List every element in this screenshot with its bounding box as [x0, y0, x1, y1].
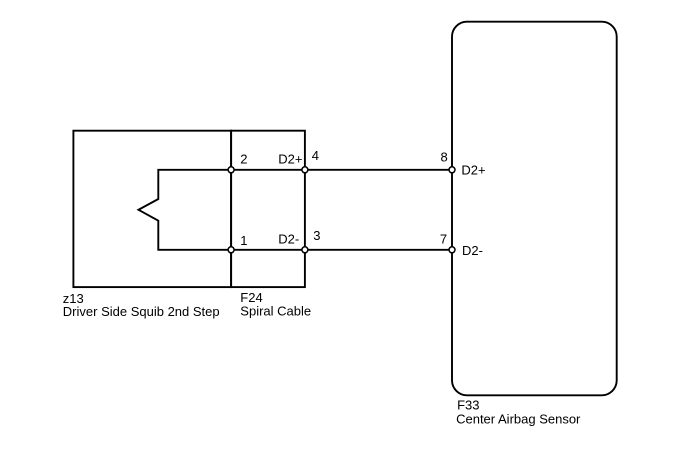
svg-text:1: 1: [240, 233, 247, 248]
connector F24 box: [231, 131, 305, 287]
svg-text:2: 2: [240, 152, 247, 167]
squib element z13: [139, 170, 232, 250]
wire D2+ F24 to F33: [305, 169, 452, 171]
svg-text:Driver Side Squib 2nd Step: Driver Side Squib 2nd Step: [63, 304, 220, 319]
svg-text:D2-: D2-: [278, 231, 299, 246]
wire D2- F24 internal: [231, 249, 305, 251]
svg-text:7: 7: [440, 232, 447, 247]
svg-text:Spiral Cable: Spiral Cable: [240, 303, 311, 318]
pin 4 junction: [302, 167, 308, 173]
pin 3 junction: [302, 247, 308, 253]
svg-text:D2+: D2+: [461, 162, 485, 177]
svg-text:8: 8: [441, 150, 448, 165]
pin 2 junction: [228, 167, 234, 173]
svg-text:3: 3: [313, 228, 320, 243]
connector z13 box: [73, 131, 231, 287]
svg-text:D2-: D2-: [462, 243, 483, 258]
svg-text:D2+: D2+: [278, 151, 302, 166]
svg-text:Center Airbag Sensor: Center Airbag Sensor: [456, 411, 581, 426]
sensor F33 box: [452, 22, 617, 396]
svg-text:4: 4: [312, 148, 319, 163]
pin 7 junction: [449, 247, 455, 253]
pin 1 junction: [228, 247, 234, 253]
pin 8 junction: [449, 167, 455, 173]
wire D2- F24 to F33: [305, 249, 452, 251]
wire D2+ F24 internal: [231, 169, 305, 171]
